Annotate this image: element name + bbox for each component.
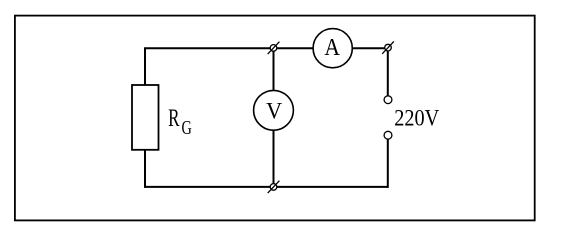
- wire middle vertical upper (terminal to voltmeter): [273, 48, 275, 91]
- wire right vertical lower (supply to bottom wire): [387, 139, 389, 188]
- terminal top-right junction (with slash): [382, 41, 394, 53]
- svg-text:V: V: [266, 99, 282, 125]
- svg-text:220V: 220V: [394, 105, 439, 131]
- svg-text:G: G: [182, 117, 192, 139]
- wire bottom horizontal right: [274, 186, 388, 188]
- supply terminal bottom (open circle): [384, 131, 392, 139]
- wire top horizontal ammeter to right terminal: [352, 47, 388, 49]
- wire left vertical upper: [144, 47, 146, 85]
- wire middle vertical lower (voltmeter to bottom terminal): [273, 130, 275, 187]
- ammeter A: [313, 29, 352, 68]
- supply terminal top (open circle): [384, 96, 392, 104]
- wire left vertical lower: [144, 150, 146, 188]
- svg-text:R: R: [168, 105, 180, 132]
- wire right vertical upper (terminal to supply): [387, 48, 389, 96]
- wire top-left horizontal (node junction to resistor branch): [145, 47, 274, 49]
- label RG: [168, 105, 192, 139]
- svg-text:A: A: [324, 34, 340, 61]
- terminal bottom junction (with slash): [268, 181, 280, 193]
- resistor RG: [132, 85, 159, 150]
- wire bottom horizontal left: [145, 186, 274, 188]
- terminal top-left junction (with slash): [268, 42, 280, 54]
- voltmeter V: [254, 90, 294, 130]
- wire top horizontal to ammeter: [274, 47, 314, 49]
